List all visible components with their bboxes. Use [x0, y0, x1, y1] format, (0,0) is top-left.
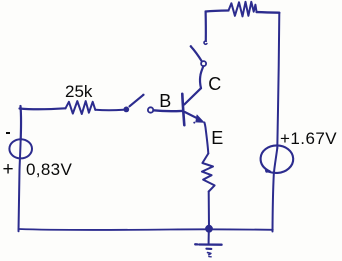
node junction (emitter resistor / bottom wire) — [206, 225, 213, 232]
label minus of V1 — [6, 132, 10, 134]
ground bar 4 speck — [209, 256, 211, 258]
label C — [208, 74, 221, 95]
switch S1 right contact circle — [148, 107, 153, 112]
transistor Q1 collector stroke — [184, 88, 201, 104]
switch S2 top contact hook — [204, 41, 207, 44]
wire right vertical (corner down to source V2) — [277, 13, 279, 148]
wire base (switch to transistor base bar) — [153, 109, 182, 112]
label E — [211, 128, 223, 149]
wire resistor R2 to top-right corner — [257, 11, 280, 14]
switch S1 blade (open, tilted up-right) — [130, 95, 144, 106]
label B — [159, 91, 171, 112]
resistor R2 (top) zigzag — [229, 2, 257, 17]
wire resistor to switch contact — [95, 109, 123, 111]
label 0,83V — [26, 160, 72, 180]
label 25k — [65, 82, 92, 102]
switch S1 left contact dot — [124, 107, 128, 111]
wire top vertical (top wire down to switch S2) — [205, 12, 207, 41]
wire emitter down to resistor R3 — [204, 123, 208, 154]
label plus of V1 — [3, 159, 14, 181]
wire top-left horizontal (corner to resistor 25k) — [20, 107, 66, 110]
ground bar 1 — [195, 243, 221, 246]
label +1.67V — [280, 129, 337, 149]
wire collector up to switch S2 — [200, 66, 203, 88]
voltage source V1 (0,83V) circle — [9, 139, 32, 158]
ground stub — [208, 232, 210, 244]
ground bar 3 — [208, 253, 211, 255]
resistor R1 25k zigzag — [66, 101, 96, 114]
switch S2 blade (open, tilted up-left) — [191, 46, 202, 61]
wire right vertical (below V2 to bottom-right corner) — [273, 148, 278, 232]
wire resistor R3 to junction node — [208, 192, 210, 229]
ground bar 2 — [206, 248, 211, 250]
transistor Q1 emitter stroke with arrowhead — [185, 112, 199, 119]
switch S2 lower contact circle — [201, 61, 206, 66]
voltage source V2 (+1.67V) circle — [261, 145, 294, 173]
resistor R3 (emitter) vertical zigzag — [202, 154, 215, 192]
wire left vertical (through and below V1 to bottom wire) — [19, 138, 21, 231]
wire left vertical (top part, from top-left corner down to source V1) — [19, 106, 22, 140]
transistor Q1 base bar — [182, 94, 184, 125]
wire top horizontal (to resistor R2) — [206, 11, 229, 12]
wire bottom horizontal — [19, 229, 273, 230]
